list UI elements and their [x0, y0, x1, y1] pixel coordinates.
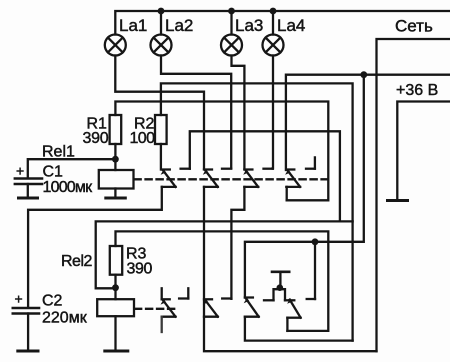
node: junction dot on +36V upper rail	[360, 71, 367, 78]
wire: Rel2 mechanical dashed link	[135, 308, 178, 310]
svg-text:+: +	[16, 163, 24, 179]
relay coil Rel2	[97, 299, 134, 316]
wire: R2 top feed from right riser	[161, 83, 353, 340]
pushbutton: actuator T bar	[272, 272, 289, 285]
wire: La2 top lead	[160, 11, 162, 35]
wire: Rel1 coil bottom lead	[114, 189, 116, 198]
wire: La4 top lead	[272, 11, 274, 35]
wire: La4 down to Rel1 K3 right fixed	[272, 56, 274, 169]
wire: Rel1 mechanical dashed link	[135, 178, 327, 180]
wire: Rel2 coil top lead	[114, 288, 116, 300]
contact Rel1.K4 (+36V feed)	[285, 169, 315, 187]
ground: C1 ground bar	[19, 197, 38, 200]
resistor R3	[110, 246, 122, 275]
svg-text:+36 В: +36 В	[396, 82, 438, 99]
wire: Rel1.K4 common down to corner joining R1 riser	[286, 187, 288, 200]
svg-text:C1: C1	[43, 164, 64, 181]
capacitor C2	[13, 308, 39, 314]
contact Rel2.K2 (fed by Rel1.K2 common line)	[203, 299, 232, 317]
wire: +36V lower rail with chassis stub	[397, 102, 450, 200]
wire: Rel2.K1 common stub (fades)	[161, 317, 163, 332]
ground: C2 ground bar	[18, 350, 38, 353]
svg-text:100: 100	[130, 130, 156, 147]
wire: La1 down-right to Rel1 K2 top feed	[115, 56, 204, 170]
wire: loop A (Rel2 coil node: left riser, long horizontal, into R2 riser)	[96, 221, 353, 288]
lamp La3	[221, 35, 242, 56]
wire: R3 bottom lead to node	[114, 275, 116, 288]
svg-text:220мк: 220мк	[42, 310, 88, 327]
wire: Rel2.K4 common down and right to loop B riser	[286, 318, 288, 331]
wire: La3 down-jog to Rel1 K3 top feed	[232, 56, 245, 170]
wire: +36V upper rail from lamp-area to right edge	[286, 75, 450, 170]
pushbutton: right fixed tick (Rel2.K4 left fixed)	[285, 299, 294, 301]
svg-text:Сеть: Сеть	[395, 17, 433, 36]
ground: Rel1 coil ground bar	[106, 197, 126, 200]
wire: Rel1.K1 common down, left, down to C2	[28, 187, 162, 307]
svg-text:La2: La2	[165, 16, 193, 35]
wire: Rel2 coil bottom lead	[114, 316, 116, 349]
node: junction dot above La3	[228, 8, 235, 15]
contact Rel1.K1 (R2 to common / NO up to loop)	[161, 169, 190, 187]
svg-text:La1: La1	[119, 16, 147, 35]
wire: R2 bottom lead	[160, 144, 162, 170]
ground: +36V lower rail chassis bar	[388, 199, 408, 202]
wire: R1 top feed wire to K4-common riser	[115, 102, 328, 201]
svg-text:La4: La4	[277, 16, 305, 35]
svg-text:La3: La3	[235, 16, 263, 35]
wire: Rel1.K1 right fixed riser and cross wire to A-riser	[190, 131, 340, 221]
wire: branch from +36V dot down, then left to Rel2 contact feeds	[245, 75, 364, 298]
wire: Rel1 coil top lead	[114, 159, 116, 170]
wire: La4 lead end at Rel1.K3 right fixed	[272, 167, 274, 170]
lamp La1	[105, 35, 126, 56]
wire: R1 bottom lead to node	[114, 144, 116, 159]
ground: Rel2 coil ground bar	[105, 350, 128, 353]
wire: Rel2.K3 common down to bottom rail P	[245, 317, 353, 341]
node: junction dot R3/Rel2	[112, 284, 119, 291]
node: junction dot above La4	[270, 8, 277, 15]
lamp La4	[263, 35, 284, 56]
lamp La2	[151, 35, 172, 56]
contact Rel2.K3	[244, 298, 259, 317]
wire: Rel1.K2 common down to bottom rail Q	[204, 187, 377, 351]
svg-text:+: +	[15, 291, 23, 307]
svg-text:390: 390	[83, 130, 109, 147]
wire: C1 bottom lead	[27, 184, 29, 197]
svg-text:390: 390	[127, 261, 153, 278]
contact Rel1.K2 (La1 feed)	[203, 169, 231, 187]
wire: La2 down-right to Rel1 K2 right fixed	[161, 56, 231, 169]
wire: Rel1.K4 right fixed stub (free)	[314, 157, 316, 168]
node: junction dot R1/Rel1/C1	[112, 156, 119, 163]
wire: mains line 2 (down left side of right margin)	[377, 39, 450, 351]
svg-text:Rel2: Rel2	[61, 253, 93, 270]
contact Rel1.K3 (La3 feed)	[243, 169, 273, 187]
relay coil Rel1	[99, 170, 134, 189]
resistor R2	[155, 115, 167, 144]
resistor R1	[110, 115, 122, 144]
svg-text:Rel1: Rel1	[42, 144, 75, 161]
wire: loop B (R3 top riser, long horizontal, down right riser to Rel2 K4 common)	[116, 231, 329, 331]
wire: top mains rail	[115, 11, 450, 35]
wire: Rel1.K3 common down-left-down to Rel2.K2 right fixed	[231, 187, 244, 299]
contact Rel2.K1 (free stubs)	[161, 288, 189, 316]
wire: La3 top lead	[230, 11, 232, 35]
node: junction dot at (315,241.8)	[312, 238, 319, 245]
wire: branch from dot down to Rel2 K4 right fixed	[314, 242, 316, 299]
capacitor C1	[15, 179, 42, 185]
svg-text:C2: C2	[42, 293, 63, 310]
svg-text:1000мк: 1000мк	[43, 179, 94, 196]
pushbutton: movable bridge with pivot dot	[277, 284, 284, 291]
pushbutton: left fixed tick (Rel2.K3 right fixed)	[264, 299, 274, 301]
node: junction dot above La2	[158, 8, 165, 15]
contact Rel2.K4	[287, 298, 315, 317]
wire: C2 bottom lead	[27, 314, 29, 350]
wire: node to C1	[28, 159, 116, 177]
